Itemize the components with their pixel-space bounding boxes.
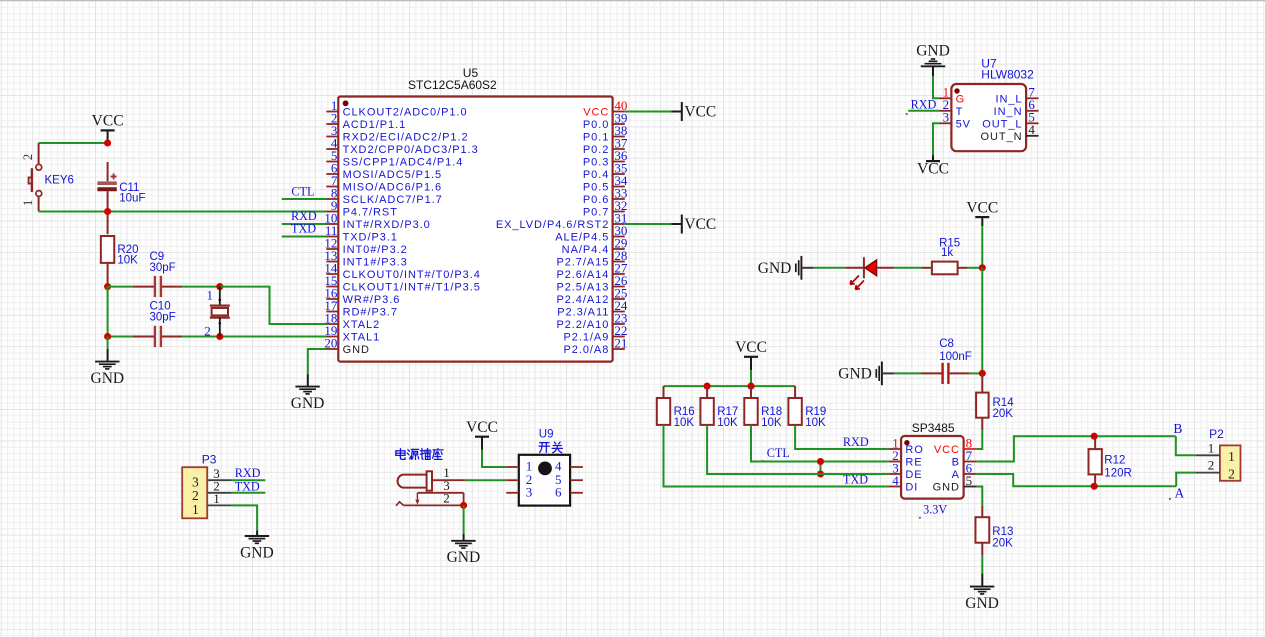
svg-text:2: 2 bbox=[204, 324, 211, 339]
svg-text:DE: DE bbox=[905, 469, 922, 481]
switch U9 body bbox=[519, 455, 570, 506]
svg-text:C8: C8 bbox=[939, 338, 954, 350]
U5 pin 30 (ALE/P4.5) bbox=[555, 223, 627, 244]
junction GND column bottom-left bbox=[104, 333, 111, 340]
svg-text:VCC: VCC bbox=[966, 199, 998, 216]
U5 pin 14 (CLKOUT0/INT#/T0/P3.4) bbox=[324, 260, 480, 281]
U9 pin 5 bbox=[555, 472, 583, 487]
svg-text:RE: RE bbox=[905, 457, 922, 469]
wire GND to U7 pin1 bbox=[933, 76, 939, 98]
svg-text:3: 3 bbox=[943, 110, 950, 125]
junction A/R12 bbox=[1091, 483, 1098, 490]
power flag VCC (U5 pin40) bbox=[671, 102, 716, 121]
svg-text:20K: 20K bbox=[993, 408, 1014, 420]
junction bus R18 bbox=[747, 383, 754, 390]
U5 pin 38 (P0.1) bbox=[583, 123, 628, 144]
junction jack pin2/GND bbox=[460, 502, 467, 509]
svg-text:INT#/RXD/P3.0: INT#/RXD/P3.0 bbox=[343, 219, 431, 231]
svg-text:SS/CPP1/ADC4/P1.4: SS/CPP1/ADC4/P1.4 bbox=[343, 157, 464, 169]
switch U9 reference bbox=[539, 429, 554, 441]
svg-text:P2.2/A10: P2.2/A10 bbox=[556, 319, 609, 331]
svg-text:CTL: CTL bbox=[291, 184, 314, 198]
svg-text:CLKOUT0/INT#/T0/P3.4: CLKOUT0/INT#/T0/P3.4 bbox=[343, 269, 481, 281]
svg-text:20K: 20K bbox=[992, 537, 1013, 549]
U8 pin 4 (DI) bbox=[889, 473, 919, 494]
connector P3 body bbox=[182, 467, 207, 518]
P3 pin 3 bbox=[207, 466, 232, 481]
wire vertical C9-C10 column bbox=[107, 287, 109, 337]
wire R14 to SP3485 pin8 bbox=[977, 430, 983, 450]
wire KEY6/C11 node to U5 pin9 bbox=[39, 211, 327, 213]
svg-text:GND: GND bbox=[965, 595, 999, 612]
svg-text:T: T bbox=[956, 106, 964, 118]
svg-text:B: B bbox=[1173, 421, 1182, 436]
svg-text:IN_L: IN_L bbox=[995, 94, 1022, 106]
U5 pin 24 (P2.3/A11) bbox=[557, 298, 628, 319]
svg-text:P0.1: P0.1 bbox=[583, 132, 609, 144]
switch KEY6 bbox=[21, 143, 74, 211]
svg-text:GND: GND bbox=[838, 366, 872, 383]
power jack J1 body bbox=[398, 471, 432, 490]
wire C9 row bbox=[108, 286, 133, 288]
svg-text:VCC: VCC bbox=[466, 419, 498, 436]
U7 pin 7 (IN_L) bbox=[995, 85, 1038, 106]
ground GND (R13) bbox=[965, 587, 999, 612]
svg-text:RD#/P3.7: RD#/P3.7 bbox=[343, 307, 398, 319]
transceiver U8 part name (SP3485) bbox=[912, 421, 955, 435]
resistor R17 bbox=[700, 386, 738, 429]
junction LED/R15/VCC bbox=[979, 264, 986, 271]
U8 pin 6 (A) bbox=[952, 460, 977, 481]
svg-text:GND: GND bbox=[240, 544, 274, 561]
svg-text:1: 1 bbox=[207, 288, 214, 303]
U5 pin 7 (MISO/ADC6/P1.6) bbox=[326, 173, 442, 194]
svg-text:VCC: VCC bbox=[684, 216, 716, 233]
power flag VCC (below U7) bbox=[917, 155, 949, 177]
svg-text:10K: 10K bbox=[805, 417, 826, 429]
connector P2 reference bbox=[1209, 427, 1224, 441]
U5 pin 8 (SCLK/ADC7/P1.7) bbox=[326, 185, 442, 206]
net label RXD (U5 pin10) bbox=[291, 209, 317, 223]
U5 pin 26 (P2.5/A13) bbox=[556, 273, 627, 294]
svg-text:1: 1 bbox=[213, 491, 220, 506]
svg-text:P2.7/A15: P2.7/A15 bbox=[556, 257, 609, 269]
P3 pin 1 bbox=[207, 491, 232, 506]
power flag VCC (LED column) bbox=[966, 199, 998, 226]
svg-text:6: 6 bbox=[555, 484, 562, 499]
svg-text:MOSI/ADC5/P1.5: MOSI/ADC5/P1.5 bbox=[343, 169, 443, 181]
U5 pin 4 (TXD2/CPP0/ADC3/P1.3) bbox=[326, 135, 478, 156]
U9 pin 2 bbox=[506, 472, 532, 487]
U8 pin 5 (GND) bbox=[933, 473, 977, 494]
svg-text:100nF: 100nF bbox=[939, 351, 972, 363]
U8 pin 2 (RE) bbox=[889, 448, 923, 469]
svg-text:10K: 10K bbox=[674, 417, 695, 429]
svg-text:TXD2/CPP0/ADC3/P1.3: TXD2/CPP0/ADC3/P1.3 bbox=[343, 144, 479, 156]
U5 pin 1 (CLKOUT2/ADC0/P1.0) bbox=[326, 98, 467, 119]
power jack pin 3 bbox=[417, 478, 463, 493]
svg-text:5V: 5V bbox=[956, 119, 971, 131]
net label TXD (P3) bbox=[235, 479, 260, 493]
svg-text:P0.4: P0.4 bbox=[583, 169, 609, 181]
svg-text:P3: P3 bbox=[202, 453, 217, 467]
junction R20/C9 bbox=[104, 283, 111, 290]
svg-text:XTAL1: XTAL1 bbox=[343, 332, 381, 344]
U5 pin 11 (TXD/P3.1) bbox=[325, 223, 398, 244]
svg-text:5: 5 bbox=[966, 473, 973, 488]
svg-text:VCC: VCC bbox=[92, 113, 124, 130]
resistor R20 bbox=[101, 212, 139, 287]
wire TXD to U5 pin11 bbox=[282, 235, 327, 237]
wire R13 to ground bbox=[981, 555, 983, 586]
svg-text:10K: 10K bbox=[717, 417, 738, 429]
svg-text:2: 2 bbox=[1228, 467, 1235, 482]
ground GND (LED) bbox=[758, 256, 814, 280]
svg-text:IN_N: IN_N bbox=[994, 106, 1023, 118]
net label RXD (U7) bbox=[911, 98, 937, 112]
svg-text:P2.0/A8: P2.0/A8 bbox=[564, 344, 610, 356]
U5 pin 20 (GND) bbox=[324, 335, 369, 356]
wire U7 pin3 to VCC bbox=[933, 123, 939, 155]
svg-text:4: 4 bbox=[1028, 122, 1035, 137]
U5 pin 35 (P0.4) bbox=[583, 160, 628, 181]
svg-text:A: A bbox=[952, 469, 960, 481]
U8 pin 1 (RO) bbox=[889, 435, 924, 456]
U5 pin 9 (P4.7/RST) bbox=[326, 198, 398, 219]
power jack pin 2 switch bbox=[396, 490, 464, 505]
U9 pin 6 bbox=[555, 484, 583, 499]
junction bus R17 bbox=[704, 383, 711, 390]
resistor R16 bbox=[657, 386, 695, 429]
svg-text:RXD: RXD bbox=[235, 466, 261, 480]
P3 pin 2 bbox=[207, 479, 232, 494]
svg-text:P0.2: P0.2 bbox=[583, 144, 609, 156]
svg-text:30pF: 30pF bbox=[150, 262, 176, 274]
svg-text:GND: GND bbox=[291, 395, 325, 412]
svg-text:VCC: VCC bbox=[735, 339, 767, 356]
svg-text:RXD: RXD bbox=[843, 435, 869, 449]
wire RXD to U7 pin2 bbox=[906, 111, 939, 115]
power jack pin 1 bbox=[432, 465, 465, 480]
U5 part name bbox=[408, 78, 497, 92]
U5 pin 3 (RXD2/ECI/ADC2/P1.2) bbox=[326, 123, 468, 144]
svg-text:VCC: VCC bbox=[934, 444, 960, 456]
wire ladder bus bbox=[664, 385, 796, 387]
wire SP3485 pin7 (B) to bus bbox=[977, 436, 1176, 461]
svg-text:1: 1 bbox=[1208, 440, 1215, 455]
U5 pin 32 (P0.7) bbox=[583, 198, 628, 219]
crystal Y1 bbox=[204, 287, 230, 339]
wire U5 pin40 to VCC bbox=[625, 111, 671, 113]
junction C10/crystal bbox=[216, 333, 223, 340]
ground GND (power jack) bbox=[447, 541, 481, 566]
wire SP3485 pin5 to R13 bbox=[977, 487, 983, 507]
net label A bbox=[1169, 485, 1185, 500]
U8 pin 3 (DE) bbox=[889, 460, 923, 481]
wire U5 pin20 to ground bbox=[308, 349, 327, 387]
wire C10 to crystal pin2 / U5 pin19 bbox=[182, 336, 326, 338]
U8 value 3.3V bbox=[919, 503, 948, 519]
svg-text:10uF: 10uF bbox=[119, 192, 145, 204]
svg-text:VCC: VCC bbox=[684, 104, 716, 121]
svg-text:TXD: TXD bbox=[291, 222, 316, 236]
junction C8/R14 bbox=[979, 370, 986, 377]
LED D1 bbox=[846, 257, 894, 289]
U9 pin 1 bbox=[506, 459, 532, 474]
U5 pin 6 (MOSI/ADC5/P1.5) bbox=[326, 160, 442, 181]
svg-text:2: 2 bbox=[1208, 458, 1215, 473]
svg-text:P2.6/A14: P2.6/A14 bbox=[556, 269, 609, 281]
net label CTL (SP3485) bbox=[761, 446, 790, 462]
U5 pin 27 (P2.6/A14) bbox=[556, 260, 627, 281]
svg-text:P2.1/A9: P2.1/A9 bbox=[564, 332, 610, 344]
svg-text:30pF: 30pF bbox=[150, 312, 176, 324]
op-amp U7 body (HLW8032) bbox=[951, 84, 1026, 151]
svg-text:P0.0: P0.0 bbox=[583, 119, 609, 131]
power flag VCC (resistor ladder) bbox=[735, 339, 767, 370]
wire R17 to DE row bbox=[707, 425, 889, 474]
ground GND (U5 pin20) bbox=[291, 387, 325, 412]
svg-text:10K: 10K bbox=[117, 255, 138, 267]
U5 pin 39 (P0.0) bbox=[583, 110, 628, 131]
capacitor C9 bbox=[133, 251, 183, 297]
svg-text:TXD: TXD bbox=[235, 479, 260, 493]
svg-text:SCLK/ADC7/P1.7: SCLK/ADC7/P1.7 bbox=[343, 194, 443, 206]
wire RE-DE tie bbox=[820, 462, 822, 475]
net label TXD (SP3485) bbox=[838, 472, 869, 487]
svg-text:ALE/P4.5: ALE/P4.5 bbox=[555, 232, 609, 244]
svg-text:STC12C5A60S2: STC12C5A60S2 bbox=[408, 78, 497, 92]
svg-text:CLKOUT2/ADC0/P1.0: CLKOUT2/ADC0/P1.0 bbox=[343, 107, 468, 119]
P2 pin 2 bbox=[1196, 458, 1220, 473]
wire A to P2 pin2 bbox=[1176, 473, 1196, 487]
U5 pin 15 (CLKOUT1/INT#/T1/P3.5) bbox=[324, 273, 480, 294]
svg-text:CTL: CTL bbox=[767, 446, 790, 460]
U5 pin 36 (P0.3) bbox=[583, 148, 628, 169]
junction RE tie bbox=[817, 458, 824, 465]
U5 pin 25 (P2.4/A12) bbox=[556, 285, 627, 306]
wire C8 to junction bbox=[969, 372, 982, 374]
wire GND to C8 bbox=[894, 372, 921, 374]
U7 pin 2 (T) bbox=[939, 97, 963, 118]
power flag VCC (U9) bbox=[466, 419, 498, 450]
wire B to P2 pin1 bbox=[1176, 436, 1196, 455]
ground GND (C8) bbox=[838, 362, 894, 386]
svg-text:OUT_N: OUT_N bbox=[980, 131, 1022, 143]
wire SP3485 pin6 (A) to bus bbox=[977, 474, 1177, 486]
svg-text:TXD: TXD bbox=[843, 472, 868, 486]
power flag VCC (U5 pin31) bbox=[671, 215, 716, 234]
wire R19 to RXD row bbox=[795, 425, 889, 449]
resistor R18 bbox=[744, 386, 782, 429]
U5 pin 19 (XTAL1) bbox=[324, 323, 380, 344]
svg-text:1: 1 bbox=[192, 502, 199, 517]
U5 pin 18 (XTAL2) bbox=[324, 310, 380, 331]
wire CTL to U5 pin8 bbox=[282, 198, 327, 200]
wire VCC down to LED row bbox=[981, 226, 983, 268]
U5 pin 17 (RD#/P3.7) bbox=[324, 298, 397, 319]
power flag VCC (top left) bbox=[92, 113, 124, 143]
U5 pin 23 (P2.2/A10) bbox=[556, 310, 627, 331]
U5 pin 31 (EX_LVD/P4.6/RST2) bbox=[496, 210, 628, 231]
svg-text:EX_LVD/P4.6/RST2: EX_LVD/P4.6/RST2 bbox=[496, 219, 609, 231]
svg-text:21: 21 bbox=[614, 335, 627, 350]
svg-text:P2.3/A11: P2.3/A11 bbox=[557, 307, 609, 319]
svg-text:VCC: VCC bbox=[917, 160, 949, 177]
svg-text:HLW8032: HLW8032 bbox=[981, 67, 1034, 81]
svg-text:P2: P2 bbox=[1209, 427, 1224, 441]
wire P3 pin1 to ground bbox=[232, 505, 257, 536]
ground GND (P3) bbox=[240, 536, 274, 561]
net label RXD (SP3485) bbox=[843, 435, 869, 449]
wire C9 to crystal node bbox=[182, 286, 220, 288]
U5 pin 29 (NA/P4.4) bbox=[562, 235, 628, 256]
U5 pin 12 (INT0#/P3.2) bbox=[324, 235, 407, 256]
wire crystal node to U5 pin18 bbox=[220, 287, 327, 324]
U7 reference designator bbox=[981, 56, 997, 70]
resistor R14 bbox=[976, 373, 1014, 429]
svg-text:GND: GND bbox=[91, 370, 125, 387]
U5 reference designator bbox=[463, 66, 479, 80]
svg-text:XTAL2: XTAL2 bbox=[343, 319, 381, 331]
svg-text:P2.4/A12: P2.4/A12 bbox=[556, 294, 609, 306]
U5 pin 34 (P0.5) bbox=[583, 173, 628, 194]
svg-text:P0.7: P0.7 bbox=[583, 207, 609, 219]
wire R18 to CTL row bbox=[751, 425, 889, 462]
wire GND to LED bbox=[814, 267, 846, 269]
svg-text:R13: R13 bbox=[992, 526, 1013, 538]
wire R16 to DI row bbox=[664, 425, 889, 487]
svg-text:120R: 120R bbox=[1104, 468, 1132, 480]
wire VCC to U9 pin1 bbox=[482, 450, 506, 468]
capacitor C8 bbox=[921, 338, 972, 384]
switch U9 label (kaiguan) bbox=[539, 442, 562, 453]
svg-text:P2.5/A13: P2.5/A13 bbox=[556, 282, 609, 294]
net label CTL (U5 pin8) bbox=[291, 184, 314, 198]
svg-text:G: G bbox=[956, 94, 966, 106]
svg-text:2: 2 bbox=[443, 490, 450, 505]
wire LED to R15 bbox=[894, 267, 922, 269]
capacitor C10 bbox=[108, 301, 183, 348]
svg-text:KEY6: KEY6 bbox=[45, 174, 74, 186]
svg-text:RXD2/ECI/ADC2/P1.2: RXD2/ECI/ADC2/P1.2 bbox=[343, 132, 469, 144]
U5 pin 10 (INT#/RXD/P3.0) bbox=[324, 210, 430, 231]
U5 pin 2 (ACD1/P1.1) bbox=[326, 110, 406, 131]
svg-text:DI: DI bbox=[905, 482, 918, 494]
capacitor C11 (polarized) bbox=[97, 162, 145, 211]
resistor R13 bbox=[975, 506, 1013, 555]
net label B bbox=[1169, 421, 1183, 437]
connector P2 body bbox=[1220, 445, 1241, 481]
U9 pin 3 bbox=[506, 484, 532, 499]
connector P3 reference bbox=[202, 453, 217, 467]
U7 pin 4 (OUT_N) bbox=[980, 122, 1038, 143]
U5 pin 40 (VCC) bbox=[583, 98, 627, 119]
svg-text:3: 3 bbox=[526, 484, 533, 499]
resistor R15 bbox=[922, 238, 968, 275]
svg-text:1k: 1k bbox=[941, 247, 953, 259]
svg-text:U9: U9 bbox=[539, 429, 554, 441]
junction C11 bottom bbox=[104, 208, 111, 215]
U9 pin 4 bbox=[555, 459, 583, 474]
resistor R19 bbox=[788, 386, 826, 429]
svg-text:P4.7/RST: P4.7/RST bbox=[343, 207, 398, 219]
wire jack pin1 to U9 pin2 bbox=[465, 479, 506, 481]
svg-text:RXD: RXD bbox=[911, 98, 937, 112]
op-amp U5 body (STC12C5A60S2 MCU) bbox=[338, 97, 612, 362]
wire RXD from P3 pin3 bbox=[232, 479, 266, 481]
svg-text:VCC: VCC bbox=[583, 107, 609, 119]
U7 part name bbox=[981, 67, 1034, 81]
wire U5 pin31 to VCC bbox=[625, 223, 671, 225]
svg-text:2: 2 bbox=[21, 154, 35, 160]
wire jack pin3 corner bbox=[463, 493, 465, 506]
svg-text:10K: 10K bbox=[761, 417, 782, 429]
U5 pin 21 (P2.0/A8) bbox=[564, 335, 628, 356]
U8 pin 8 (VCC) bbox=[934, 435, 977, 456]
svg-text:GND: GND bbox=[447, 549, 481, 566]
svg-text:GND: GND bbox=[933, 482, 960, 494]
svg-text:3.3V: 3.3V bbox=[923, 503, 947, 517]
svg-text:INT1#/P3.3: INT1#/P3.3 bbox=[343, 257, 408, 269]
svg-text:CLKOUT1/INT#/T1/P3.5: CLKOUT1/INT#/T1/P3.5 bbox=[343, 282, 481, 294]
svg-text:1: 1 bbox=[21, 200, 35, 206]
U7 pin 5 (OUT_L) bbox=[982, 110, 1038, 131]
svg-text:1: 1 bbox=[1228, 449, 1235, 464]
transceiver U8 body bbox=[901, 436, 964, 499]
U7 pin 3 (5V) bbox=[939, 110, 971, 131]
svg-text:P0.5: P0.5 bbox=[583, 182, 609, 194]
svg-text:A: A bbox=[1175, 485, 1185, 500]
svg-text:P0.3: P0.3 bbox=[583, 157, 609, 169]
svg-text:TXD/P3.1: TXD/P3.1 bbox=[343, 232, 398, 244]
U7 pin 1 (G) bbox=[939, 85, 965, 106]
svg-text:WR#/P3.6: WR#/P3.6 bbox=[343, 294, 401, 306]
power jack label (dianyuanchazuo) bbox=[396, 449, 443, 460]
svg-text:GND: GND bbox=[343, 344, 370, 356]
net label TXD (U5 pin11) bbox=[291, 222, 316, 236]
junction VCC/C11/KEY6 bbox=[104, 139, 111, 146]
svg-text:4: 4 bbox=[892, 473, 899, 488]
svg-text:GND: GND bbox=[916, 43, 950, 60]
U7 pin 6 (IN_N) bbox=[994, 97, 1039, 118]
wire VCC to ladder bus bbox=[750, 370, 752, 386]
svg-text:GND: GND bbox=[758, 260, 792, 277]
svg-text:NA/P4.4: NA/P4.4 bbox=[562, 244, 610, 256]
U8 pin 7 (B) bbox=[952, 448, 977, 469]
wire TXD from P3 pin2 bbox=[232, 492, 266, 494]
net label RXD (P3) bbox=[235, 466, 261, 480]
U5 pin 28 (P2.7/A15) bbox=[556, 248, 627, 269]
svg-text:ACD1/P1.1: ACD1/P1.1 bbox=[343, 119, 407, 131]
wire jack to ground bbox=[463, 505, 465, 540]
wire R15 to VCC column bbox=[968, 267, 983, 269]
ground GND (above U7) bbox=[916, 43, 950, 76]
U5 pin 13 (INT1#/P3.3) bbox=[324, 248, 407, 269]
svg-text:RO: RO bbox=[905, 444, 923, 456]
wire VCC column LED to C8 row bbox=[981, 268, 983, 374]
P2 pin 1 bbox=[1196, 440, 1220, 455]
svg-text:P0.6: P0.6 bbox=[583, 194, 609, 206]
svg-text:INT0#/P3.2: INT0#/P3.2 bbox=[343, 244, 408, 256]
U5 pin 37 (P0.2) bbox=[583, 135, 628, 156]
svg-text:SP3485: SP3485 bbox=[912, 421, 955, 435]
junction crystal pin1 node bbox=[216, 283, 223, 290]
svg-text:MISO/ADC6/P1.6: MISO/ADC6/P1.6 bbox=[343, 182, 443, 194]
U5 pin 5 (SS/CPP1/ADC4/P1.4) bbox=[326, 148, 463, 169]
svg-text:R12: R12 bbox=[1104, 455, 1125, 467]
resistor R12 bbox=[1089, 436, 1132, 486]
